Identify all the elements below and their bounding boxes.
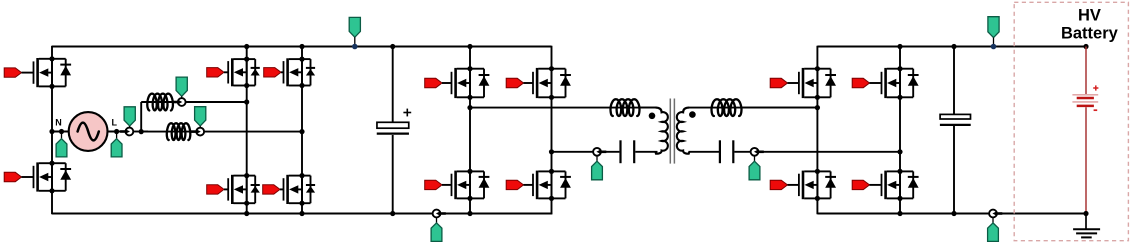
probe Am_out (below ammeter A7)	[992, 218, 994, 224]
ammeter A7 (battery current)	[989, 210, 997, 218]
ground	[1085, 214, 1087, 229]
node DAB secondary leg2 top	[897, 44, 902, 49]
probe Am_L (above ammeter A1)	[124, 107, 135, 126]
transistor Q5 (PFC leg2 low side)	[207, 185, 224, 194]
wire DAB primary leg 2	[551, 46, 553, 215]
wire top rail (PFC + DAB-left bridges)	[52, 46, 552, 48]
probe Vm_out (above top rail)	[988, 17, 999, 38]
transistor Q12 (DAB secondary leg2 high)	[852, 78, 869, 87]
ammeter A3 (L2 current)	[196, 128, 204, 136]
wire DC link cap bottom	[392, 135, 394, 214]
wire output cap top	[953, 47, 955, 115]
svg-text:L: L	[112, 117, 118, 127]
node battery negative (bottom rail end)	[1083, 211, 1088, 216]
probe Am_pri (below ammeter A5)	[596, 156, 598, 162]
voltage source V_AC	[69, 112, 108, 151]
transistor Q14 (DAB secondary leg2 low)	[852, 180, 869, 189]
node N probe dot	[59, 129, 64, 134]
ammeter A2 (L1 current)	[178, 98, 186, 106]
transistor Q4 (PFC leg3 high side)	[264, 68, 281, 77]
battery B1 (HV battery)	[1072, 94, 1098, 96]
transformer TX primary winding	[655, 108, 667, 154]
wire inductor L1 to ammeter A2	[173, 101, 178, 103]
wire riser to upper inductor branch	[140, 102, 142, 132]
wire battery negative (red)	[1085, 107, 1087, 213]
transistor Q13 (DAB secondary leg1 low)	[770, 180, 787, 189]
transformer secondary polarity dot	[689, 111, 696, 118]
wire DAB primary leg 1	[469, 46, 471, 215]
label - (battery)	[1094, 109, 1098, 111]
ammeter A4 (DC bus return current)	[433, 210, 441, 218]
transistor Q3 (PFC leg2 high side)	[207, 68, 224, 77]
probe Vm_N (below node N)	[61, 132, 63, 140]
probe Vm_L (below node L)	[116, 132, 118, 140]
transistor Q6 (PFC leg3 low side)	[263, 185, 280, 194]
node output cap top	[951, 44, 956, 49]
wire lower branch to inductor L2	[141, 131, 196, 133]
node PFC leg3 top	[299, 44, 304, 49]
node DAB secondary leg2 midpoint	[897, 149, 902, 154]
svg-text:N: N	[55, 117, 62, 127]
transistor Q10 (DAB primary leg2 low)	[506, 180, 523, 189]
wire battery positive (red)	[1085, 47, 1087, 95]
transistor Q11 (DAB secondary leg1 high)	[770, 78, 787, 87]
node DAB primary leg1 midpoint	[467, 105, 472, 110]
wire inductor L2 to ammeter A3	[190, 131, 196, 133]
wire upper branch to inductor L1	[141, 101, 178, 103]
wire ammeter A1 to branch node	[133, 131, 148, 133]
node DAB secondary leg1 midpoint	[815, 105, 820, 110]
wire PFC leg 3	[301, 46, 303, 215]
probe Am_sec (below ammeter A6)	[754, 156, 756, 162]
transistor Q7 (DAB primary leg1 high)	[425, 78, 442, 87]
node PFC leg3 bottom	[299, 211, 304, 216]
transistor Q2 (PFC leg1 low side)	[4, 172, 21, 181]
wire DAB primary leg2 midpoint to ammeter A5	[552, 151, 594, 153]
wire ammeter A3 to PFC leg 3 midpoint	[204, 131, 302, 133]
node DAB primary leg1 bottom	[467, 211, 472, 216]
inductor L3 (primary series)	[611, 99, 640, 116]
node battery positive (top rail end)	[1083, 44, 1088, 49]
node output cap bottom	[951, 211, 956, 216]
capacitor C_out (output filter)	[940, 114, 970, 119]
node PFC leg 2 midpoint	[244, 99, 249, 104]
node DC link cap top	[390, 44, 395, 49]
inductor L4 (secondary series)	[712, 99, 742, 116]
wire inductor L3 to transformer primary	[640, 107, 657, 109]
label + (battery)	[1093, 87, 1098, 89]
svg-text:HV: HV	[1078, 7, 1101, 25]
node DAB primary leg1 top	[467, 44, 472, 49]
ammeter A1 (AC line current)	[125, 128, 133, 136]
transformer TX core	[669, 99, 671, 164]
wire capacitor C1 to transformer primary bottom	[635, 151, 657, 153]
wire ammeter A6 to DAB secondary leg2 midpoint	[758, 151, 900, 153]
transformer primary polarity dot	[649, 113, 656, 120]
probe Am_dc (below ammeter A4)	[436, 218, 438, 224]
capacitor C2 (secondary DC blocking)	[719, 140, 721, 163]
wire output cap bottom	[953, 126, 955, 214]
wire inductor L4 to DAB secondary leg1 midpoint	[743, 107, 818, 109]
wire ammeter A5 to capacitor C1	[601, 151, 620, 153]
ammeter A6 (secondary tank current)	[751, 148, 759, 156]
HV battery dashed enclosure	[1014, 2, 1128, 240]
transistor Q1 (PFC leg1 high side)	[4, 68, 21, 77]
transistor Q9 (DAB primary leg1 low)	[425, 180, 442, 189]
node DAB secondary leg2 bottom	[897, 211, 902, 216]
probe Am_L2 (above ammeter A3)	[195, 107, 206, 126]
node output probe	[991, 44, 997, 50]
capacitor C1 (primary DC blocking)	[619, 140, 621, 163]
transformer TX secondary winding	[677, 108, 689, 154]
wire PFC leg 1 (AC slow leg)	[51, 46, 53, 215]
wire bottom rail (PFC + DAB-left bridges)	[52, 213, 552, 215]
probe Am_L1 (above ammeter A2)	[176, 77, 187, 96]
transistor Q8 (DAB primary leg2 high)	[506, 78, 523, 87]
wire DAB primary leg1 midpoint to inductor L3	[470, 107, 657, 109]
wire DC link cap top	[392, 47, 394, 123]
wire capacitor C2 to ammeter A6	[734, 151, 750, 153]
wire ammeter A2 to PFC leg 2 midpoint	[185, 101, 246, 103]
node L	[114, 129, 119, 134]
svg-text:Battery: Battery	[1061, 25, 1119, 43]
node PFC leg 3 midpoint	[299, 129, 304, 134]
node DC link cap bottom	[390, 211, 395, 216]
probe Vm_DC (above top rail)	[349, 17, 360, 37]
inductor L2	[167, 123, 191, 140]
node PFC leg2 top	[244, 44, 249, 49]
node PFC leg2 bottom	[244, 211, 249, 216]
wire PFC leg 2	[246, 46, 248, 215]
label + (C_dc polarity)	[403, 112, 411, 114]
wire DAB secondary leg 1	[816, 46, 818, 215]
ammeter A5 (primary tank current)	[593, 148, 601, 156]
node DC bus probe	[352, 44, 358, 50]
inductor L1	[147, 94, 173, 111]
node DAB primary leg2 midpoint	[549, 149, 554, 154]
wire node N to AC source	[52, 131, 70, 133]
wire transformer secondary bottom to capacitor C2	[689, 151, 720, 153]
wire bottom rail (DAB-right bridge to battery)	[817, 213, 1086, 215]
node branch split	[139, 129, 144, 134]
wire DAB secondary leg 2	[899, 46, 901, 215]
node N	[49, 129, 54, 134]
capacitor C_dc (DC link)	[377, 122, 409, 128]
wire AC source to node L	[108, 131, 126, 133]
wire top rail (DAB-right bridge to battery)	[817, 46, 1086, 48]
wire transformer secondary top to inductor L4	[689, 107, 818, 109]
